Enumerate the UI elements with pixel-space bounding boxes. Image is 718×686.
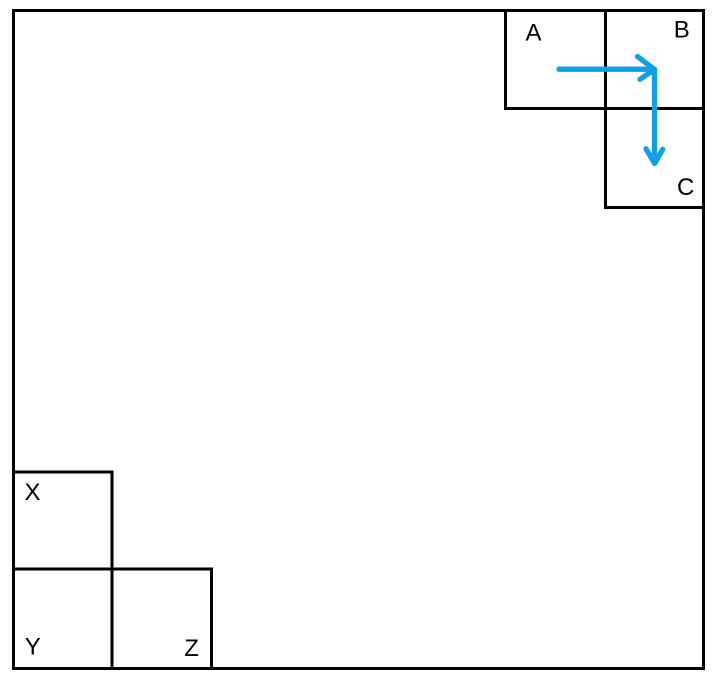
svg-text:B: B	[674, 17, 690, 44]
svg-text:Z: Z	[184, 635, 199, 662]
svg-text:C: C	[677, 174, 694, 201]
svg-text:Y: Y	[25, 634, 41, 661]
svg-text:X: X	[25, 479, 41, 506]
svg-text:A: A	[526, 19, 542, 46]
